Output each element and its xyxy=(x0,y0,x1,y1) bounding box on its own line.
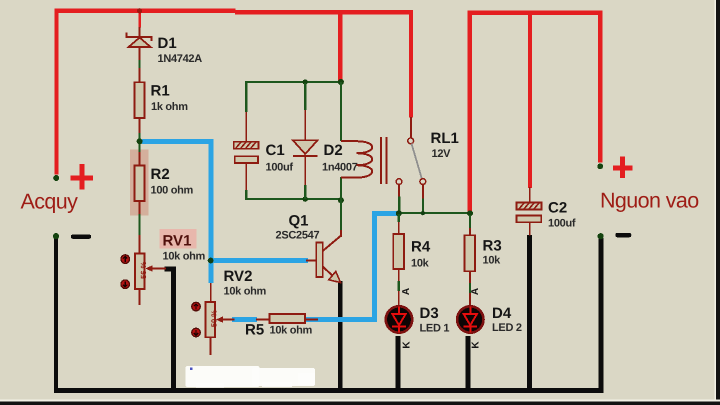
wire: R4 bottom lead to D3 xyxy=(398,269,400,306)
wire: R1 bottom lead xyxy=(139,118,141,139)
svg-text:D1: D1 xyxy=(158,35,177,52)
ground/negative: bottom black rail xyxy=(54,388,604,393)
wire: R4 top lead xyxy=(398,214,400,234)
node: battery positive terminal dot xyxy=(53,175,59,181)
label: RV1 highlight box xyxy=(160,229,197,249)
RV2 terminal button down xyxy=(192,328,201,337)
svg-text:Acquy: Acquy xyxy=(21,190,79,214)
svg-text:C2: C2 xyxy=(548,200,567,217)
node: dot top rail at coil/red xyxy=(338,79,344,85)
wire: left battery positive drop (red) xyxy=(54,9,58,175)
wire: D1 to R1 lead xyxy=(139,47,141,82)
wire: R3 top lead xyxy=(469,215,471,236)
resistor R2 xyxy=(135,166,145,202)
wire: red stub from rail to D1 xyxy=(138,11,140,28)
wire: from NC contact down to R4 node xyxy=(398,185,400,213)
wire: D2 bottom lead xyxy=(304,157,306,200)
wire: right nguon vao negative vertical (black) xyxy=(599,238,604,391)
wire: red drop to C2 (x=530) xyxy=(528,10,532,187)
svg-text:R1: R1 xyxy=(151,83,170,100)
wire: RV1 bottom dangling pin xyxy=(139,289,141,305)
relay switch moving contact circle xyxy=(420,179,426,185)
wire: top positive rail right segment (red) xyxy=(468,10,603,14)
LED D3 xyxy=(386,306,412,332)
node: dot at R4/blue junction xyxy=(396,210,402,216)
wire: R5 left pin xyxy=(256,319,270,321)
svg-text:RL1: RL1 xyxy=(431,130,459,147)
svg-text:A: A xyxy=(470,288,481,295)
svg-text:100 ohm: 100 ohm xyxy=(151,184,194,196)
selection highlight behind R2 xyxy=(130,149,148,215)
wire: C1 top lead xyxy=(245,82,247,142)
svg-text:R4: R4 xyxy=(411,239,431,256)
node: dot bottom rail at D2 xyxy=(303,196,308,201)
wire: R3 bottom lead to D4 xyxy=(469,271,471,306)
svg-text:R3: R3 xyxy=(483,238,502,255)
svg-text:10k ohm: 10k ohm xyxy=(270,325,313,337)
diode D2 1n4007 xyxy=(293,140,318,157)
resistor R4 xyxy=(393,234,404,269)
relay switch pivot circle xyxy=(408,138,414,144)
RV1 terminal button up xyxy=(121,255,130,264)
wire: green from coil dot down to Q1 collector xyxy=(340,200,342,230)
svg-text:10k ohm: 10k ohm xyxy=(163,251,206,263)
svg-text:1k ohm: 1k ohm xyxy=(151,101,188,113)
wire: green horizontal node row y=213 xyxy=(399,212,471,214)
RV1 wiper arrow xyxy=(145,265,166,271)
capacitor C2 xyxy=(517,203,542,223)
svg-text:100uf: 100uf xyxy=(548,218,576,230)
nguon vao minus symbol xyxy=(615,233,631,237)
node: dot at R3/red junction xyxy=(467,210,473,216)
transistor Q1 2SC2547 xyxy=(306,230,342,283)
LED D4 xyxy=(457,306,483,332)
capacitor C1 xyxy=(234,142,259,163)
resistor R3 xyxy=(465,235,476,271)
svg-text:R5: R5 xyxy=(245,322,264,339)
svg-text:10k ohm: 10k ohm xyxy=(224,286,267,298)
resistor R5 (horizontal) xyxy=(270,314,306,323)
wire: R5 right pin xyxy=(305,319,318,321)
battery minus symbol (Acquy) xyxy=(71,235,91,239)
wire: green rail C1/D2 top (y=82) xyxy=(245,81,342,83)
node: battery negative terminal dot xyxy=(53,233,59,239)
wire: C2 negative to ground (black) xyxy=(527,235,532,390)
wire: D3 cathode to ground (black) xyxy=(395,336,400,391)
zener diode D1 1N4742A xyxy=(127,27,152,47)
battery plus symbol (Acquy, red) xyxy=(70,164,93,189)
svg-text:R2: R2 xyxy=(151,166,170,183)
node: junction dot blue at R1/R2 xyxy=(137,138,143,144)
potentiometer RV1 body xyxy=(135,254,145,289)
svg-text:A: A xyxy=(401,288,412,295)
frame: right black edge xyxy=(714,0,716,405)
wire: D4 cathode to ground (black) xyxy=(466,336,471,391)
svg-text:2SC2547: 2SC2547 xyxy=(276,230,320,242)
wire: R2 top lead xyxy=(139,144,141,166)
svg-text:Q1: Q1 xyxy=(289,213,309,230)
svg-text:D4: D4 xyxy=(492,305,512,322)
wire: C1 bottom lead xyxy=(245,163,247,199)
wire: red drop to relay switch (x=411) xyxy=(409,12,413,117)
wire: coil bottom lead return green down to bottom rail dot xyxy=(340,177,342,201)
svg-text:Nguon vao: Nguon vao xyxy=(600,189,699,213)
wire: D2 top lead xyxy=(304,83,306,140)
svg-text:C1: C1 xyxy=(266,142,285,159)
node: nguon vao negative terminal dot xyxy=(598,233,604,239)
RV2 terminal button up xyxy=(192,302,201,311)
node: nguon vao positive dot xyxy=(597,163,603,169)
svg-text:1N4742A: 1N4742A xyxy=(158,53,203,65)
svg-text:100uf: 100uf xyxy=(266,162,294,174)
svg-text:RV2: RV2 xyxy=(224,268,253,285)
resistor R1 xyxy=(135,82,145,118)
svg-text:D2: D2 xyxy=(324,142,343,159)
wire: RV2 top pin from blue xyxy=(210,283,212,302)
wire: C2 bottom pin xyxy=(529,222,531,235)
svg-text:LED 1: LED 1 xyxy=(420,323,450,335)
relay switch blade (gray) xyxy=(412,144,422,179)
svg-text:K: K xyxy=(471,341,482,349)
relay RL1 coil xyxy=(341,137,388,184)
node: small dot at switch tee xyxy=(421,211,425,215)
wire: Q1 emitter to ground (black) xyxy=(338,281,342,391)
svg-text:10k: 10k xyxy=(483,255,502,267)
wire: red drop to D2/C1 rail at x=340 xyxy=(338,10,342,82)
svg-text:10k: 10k xyxy=(411,258,430,270)
svg-text:50 %: 50 % xyxy=(209,310,218,327)
RV2 wiper arrow xyxy=(216,316,235,322)
svg-text:RV1: RV1 xyxy=(163,233,192,250)
potentiometer RV2 body xyxy=(205,302,215,337)
wire: left battery negative vertical (black) xyxy=(54,237,58,391)
wire: C2 top pin xyxy=(529,187,531,203)
wire: red drop to R3 node (x=470) xyxy=(468,10,473,211)
svg-text:K: K xyxy=(402,341,413,349)
node: dot bottom rail at coil xyxy=(338,197,344,203)
wire: R2 bottom lead xyxy=(139,201,141,254)
wire: from moving contact down to green node xyxy=(422,185,424,214)
svg-text:12V: 12V xyxy=(432,148,452,160)
node: junction dot blue at Q1 base branch xyxy=(208,258,214,264)
nguon vao plus symbol (red) xyxy=(613,157,633,178)
wire: coil left vertical green (top rail to coil top lead) xyxy=(340,82,342,141)
watermark smudge (white blob) xyxy=(186,366,316,388)
wire: red drop to Nguon vao + (x=600) xyxy=(598,10,602,162)
node: dot top rail at D2 xyxy=(303,79,308,84)
RV1 terminal button down xyxy=(121,280,130,289)
wire: RV1 wiper to ground (black) xyxy=(165,267,177,391)
relay RL1 switch: pin from red to pivot xyxy=(410,117,412,138)
wire: RV2 bottom dangling pin xyxy=(210,337,212,355)
frame: bottom black edge xyxy=(0,400,720,402)
svg-text:1n4007: 1n4007 xyxy=(322,162,358,174)
wire: top positive rail left segment (red) xyxy=(56,9,414,15)
svg-text:56 %: 56 % xyxy=(139,261,148,278)
node: junction dot on top rail at D1 xyxy=(137,8,142,13)
wire: blue net R1/R2 junction to RV2 top and Q1 base xyxy=(142,139,308,283)
svg-text:LED 2: LED 2 xyxy=(492,322,522,334)
relay switch NC contact circle xyxy=(396,179,402,185)
svg-text:D3: D3 xyxy=(420,305,439,322)
wire: blue net RV2 wiper - R5 - R4 node xyxy=(232,211,397,322)
wire: green rail C1/D2 bottom (y=199) xyxy=(245,198,342,200)
